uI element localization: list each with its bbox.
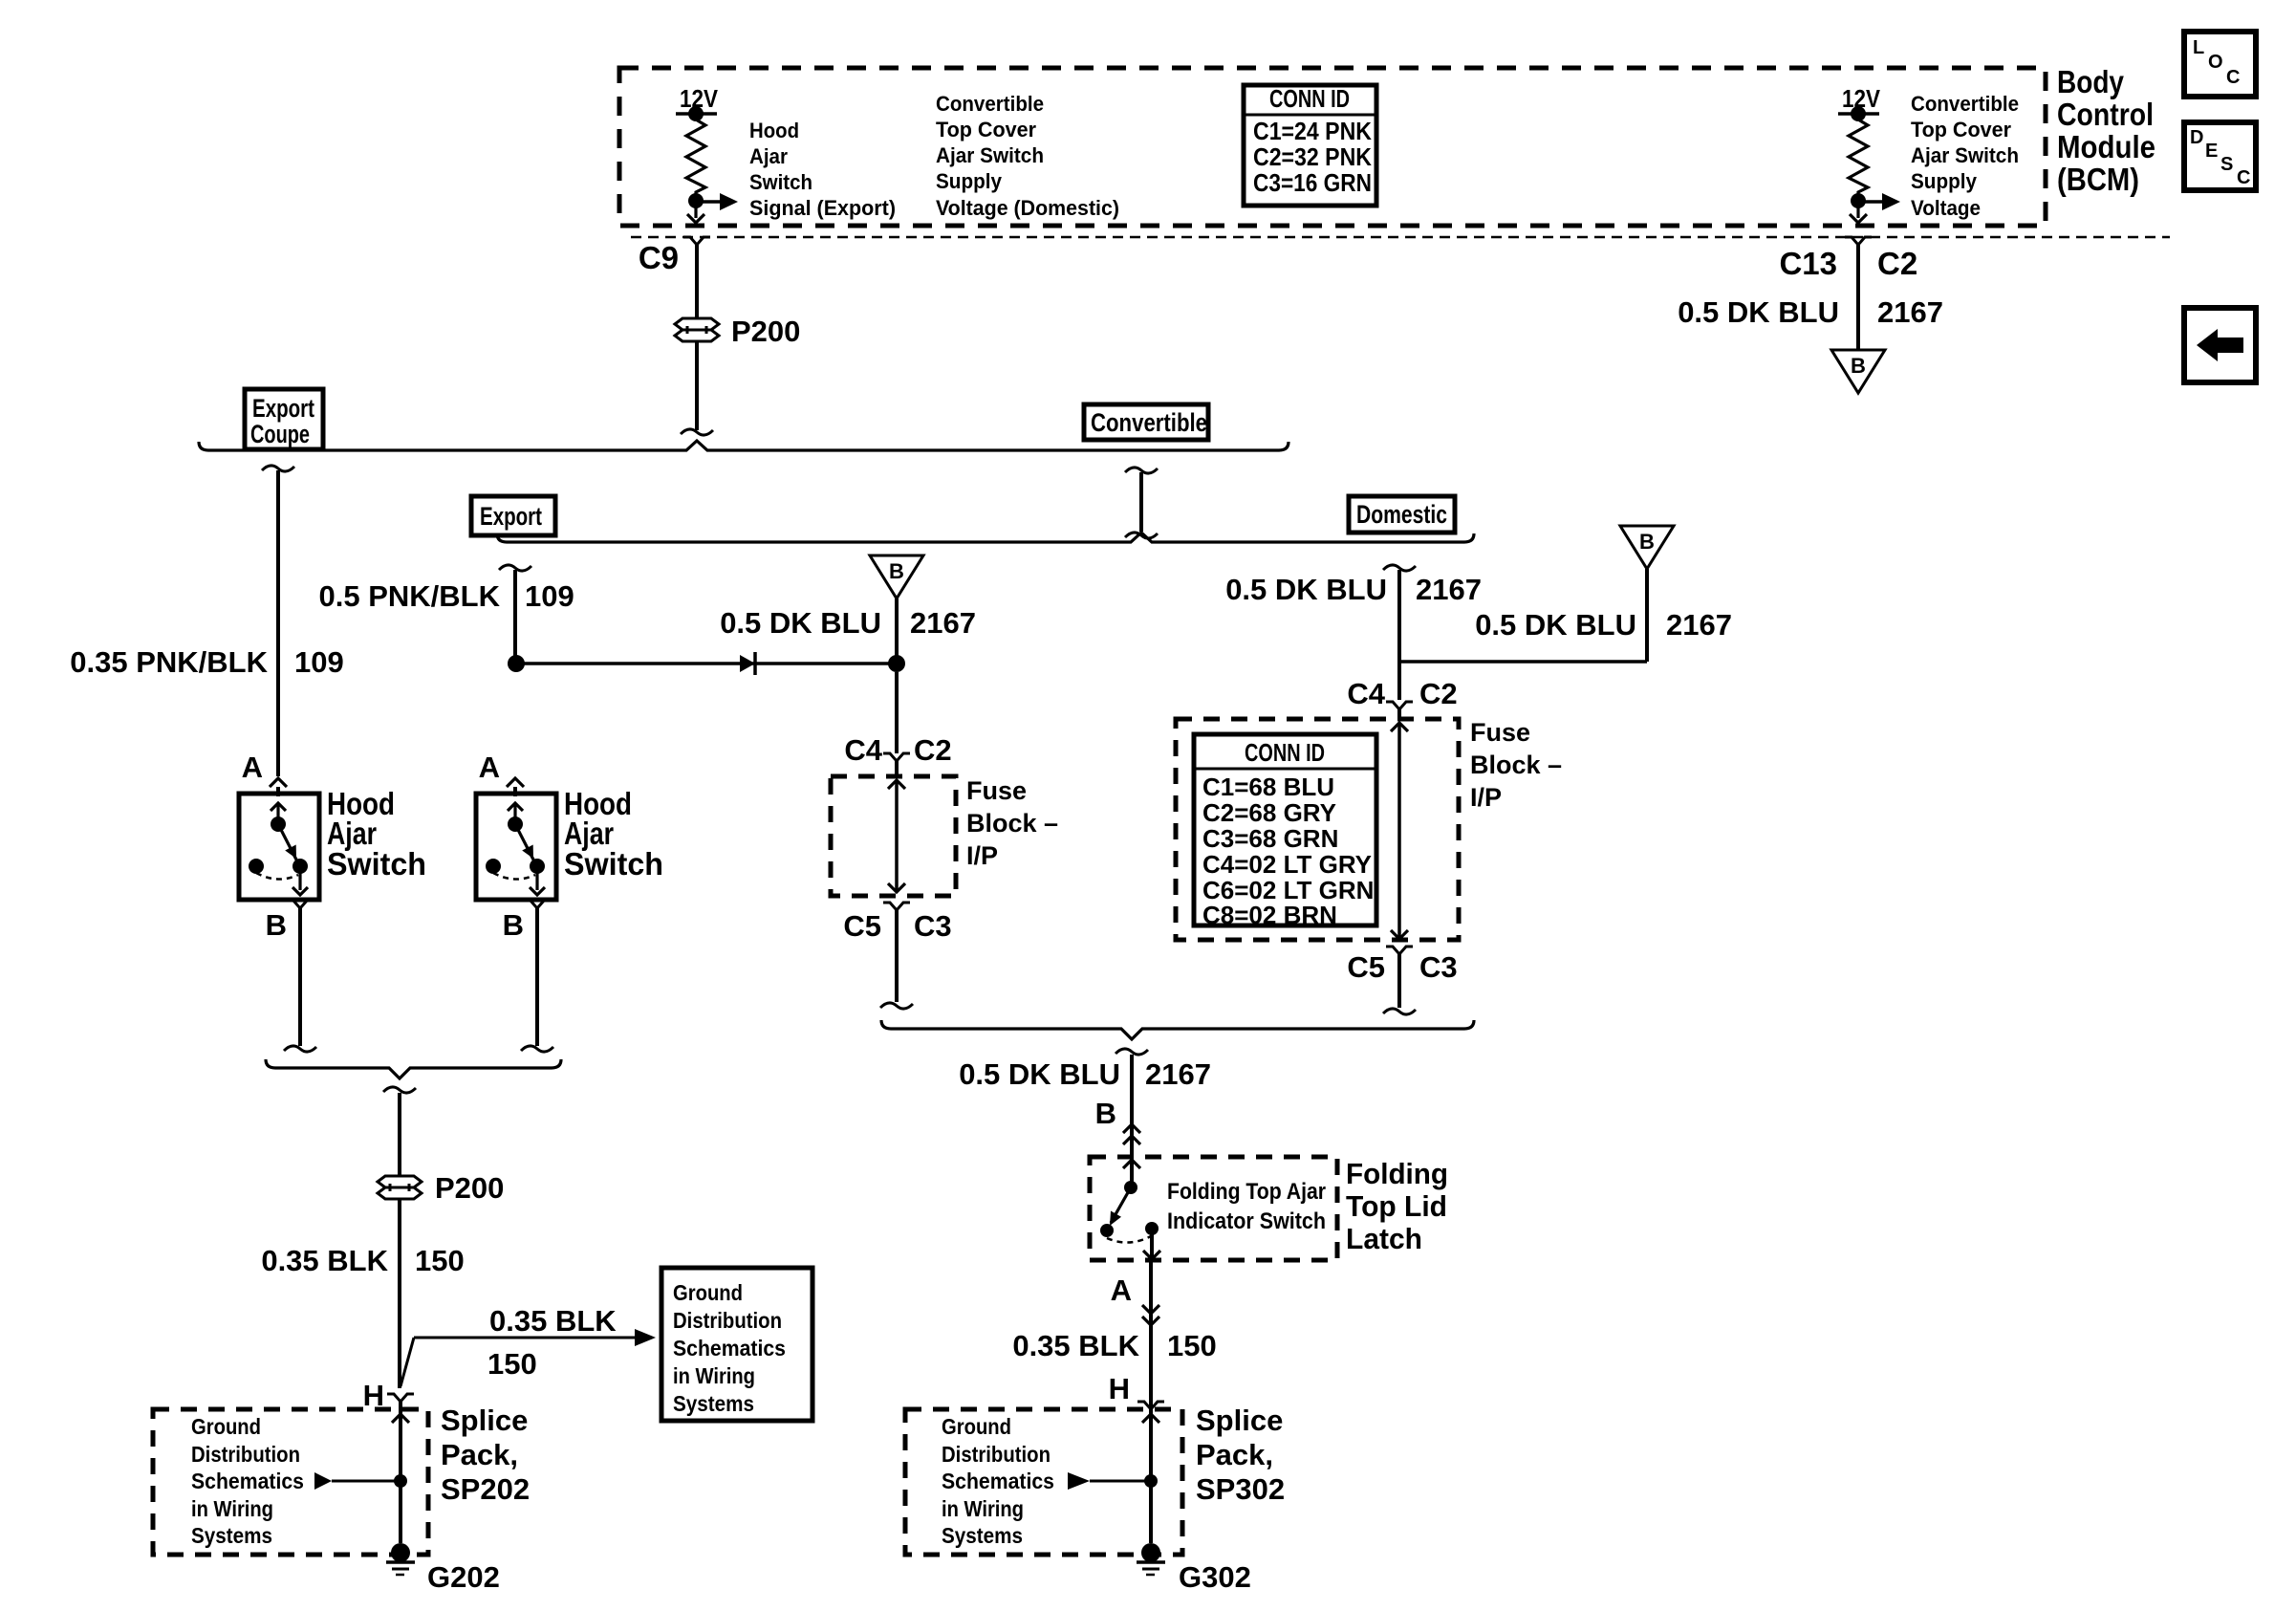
svg-text:C4: C4 [844, 733, 882, 767]
svg-text:Ajar Switch: Ajar Switch [1911, 143, 2019, 167]
svg-text:C5: C5 [843, 909, 881, 943]
svg-text:Block –: Block – [1470, 751, 1562, 779]
svg-text:0.5 PNK/BLK: 0.5 PNK/BLK [319, 579, 501, 613]
svg-text:Convertible: Convertible [936, 92, 1044, 116]
svg-text:Schematics: Schematics [942, 1469, 1054, 1493]
svg-text:Hood: Hood [749, 119, 799, 142]
svg-text:C: C [2226, 67, 2240, 88]
svg-text:Ajar: Ajar [749, 144, 788, 168]
svg-text:Ground: Ground [191, 1414, 261, 1439]
svg-text:Top Cover: Top Cover [1911, 118, 2011, 142]
svg-text:C9: C9 [639, 240, 679, 275]
svg-text:150: 150 [1167, 1329, 1217, 1362]
svg-text:H: H [1109, 1372, 1130, 1405]
svg-text:Folding: Folding [1346, 1157, 1448, 1190]
svg-text:Switch: Switch [749, 170, 812, 194]
svg-text:0.35 PNK/BLK: 0.35 PNK/BLK [70, 645, 268, 679]
svg-text:in Wiring: in Wiring [191, 1496, 273, 1521]
svg-text:C13: C13 [1779, 246, 1837, 281]
svg-text:C: C [2237, 167, 2250, 188]
svg-text:2167: 2167 [1145, 1057, 1211, 1091]
svg-text:C1=24 PNK: C1=24 PNK [1253, 117, 1372, 145]
svg-text:C3: C3 [914, 909, 952, 943]
svg-text:A: A [1111, 1274, 1132, 1307]
svg-text:CONN ID: CONN ID [1269, 84, 1350, 113]
svg-text:Block –: Block – [966, 809, 1058, 838]
svg-text:Export: Export [480, 502, 542, 531]
svg-text:0.5 DK BLU: 0.5 DK BLU [720, 606, 881, 640]
svg-text:Distribution: Distribution [942, 1442, 1051, 1467]
svg-text:Systems: Systems [191, 1523, 272, 1548]
svg-text:109: 109 [294, 645, 344, 679]
svg-text:Module: Module [2057, 129, 2155, 164]
svg-text:Pack,: Pack, [441, 1438, 518, 1471]
svg-text:C8=02 BRN: C8=02 BRN [1202, 901, 1337, 929]
svg-text:Systems: Systems [673, 1391, 754, 1416]
svg-text:0.35 BLK: 0.35 BLK [489, 1304, 617, 1338]
svg-text:Systems: Systems [942, 1523, 1023, 1548]
svg-text:Domestic: Domestic [1356, 500, 1447, 529]
svg-text:C5: C5 [1347, 950, 1385, 984]
svg-text:150: 150 [415, 1244, 465, 1277]
svg-text:in Wiring: in Wiring [673, 1363, 755, 1388]
svg-text:0.5 DK BLU: 0.5 DK BLU [1475, 608, 1636, 642]
svg-text:C2=32 PNK: C2=32 PNK [1253, 142, 1372, 171]
svg-text:2167: 2167 [1877, 295, 1943, 329]
svg-text:C4: C4 [1347, 677, 1385, 710]
svg-text:109: 109 [525, 579, 574, 613]
svg-text:G302: G302 [1179, 1560, 1251, 1594]
svg-text:(BCM): (BCM) [2057, 162, 2139, 197]
svg-text:0.35 BLK: 0.35 BLK [1012, 1329, 1139, 1362]
svg-text:B: B [1095, 1097, 1116, 1130]
svg-text:0.35 BLK: 0.35 BLK [261, 1244, 388, 1277]
svg-text:B: B [1851, 354, 1866, 378]
svg-text:B: B [266, 908, 287, 942]
svg-text:150: 150 [487, 1347, 537, 1381]
svg-text:Ajar Switch: Ajar Switch [936, 143, 1044, 167]
svg-text:SP202: SP202 [441, 1472, 530, 1506]
svg-text:Splice: Splice [441, 1404, 528, 1437]
svg-text:Distribution: Distribution [191, 1442, 300, 1467]
svg-text:Body: Body [2057, 64, 2125, 99]
svg-text:Coupe: Coupe [250, 420, 310, 448]
svg-text:Latch: Latch [1346, 1222, 1422, 1255]
svg-text:2167: 2167 [1416, 573, 1482, 606]
svg-text:Schematics: Schematics [673, 1336, 786, 1361]
svg-text:Folding Top Ajar: Folding Top Ajar [1167, 1179, 1326, 1205]
svg-text:Schematics: Schematics [191, 1469, 304, 1493]
svg-text:D: D [2190, 127, 2203, 148]
svg-text:E: E [2205, 141, 2218, 162]
svg-text:C3=16 GRN: C3=16 GRN [1253, 168, 1372, 197]
svg-text:B: B [889, 559, 904, 583]
svg-text:I/P: I/P [1470, 783, 1502, 812]
svg-text:in Wiring: in Wiring [942, 1496, 1024, 1521]
svg-text:SP302: SP302 [1196, 1472, 1285, 1506]
svg-text:C3=68 GRN: C3=68 GRN [1202, 824, 1338, 853]
svg-text:C3: C3 [1419, 950, 1458, 984]
svg-text:Convertible: Convertible [1091, 408, 1207, 437]
svg-text:Distribution: Distribution [673, 1308, 782, 1333]
svg-text:Voltage: Voltage [1911, 196, 1981, 220]
svg-text:P200: P200 [731, 315, 800, 348]
svg-text:Voltage (Domestic): Voltage (Domestic) [936, 196, 1119, 220]
svg-text:Indicator Switch: Indicator Switch [1167, 1208, 1326, 1234]
svg-text:Fuse: Fuse [966, 776, 1027, 805]
svg-text:Pack,: Pack, [1196, 1438, 1273, 1471]
svg-text:A: A [479, 751, 500, 784]
svg-text:2167: 2167 [910, 606, 976, 640]
svg-text:Convertible: Convertible [1911, 92, 2019, 116]
svg-text:C1=68 BLU: C1=68 BLU [1202, 773, 1334, 801]
svg-text:CONN ID: CONN ID [1245, 738, 1325, 767]
svg-text:Signal (Export): Signal (Export) [749, 196, 896, 220]
svg-text:P200: P200 [435, 1171, 504, 1205]
svg-text:O: O [2208, 52, 2223, 73]
svg-text:Supply: Supply [1911, 169, 1978, 193]
svg-text:Ground: Ground [673, 1280, 743, 1305]
svg-text:C2: C2 [1419, 677, 1458, 710]
svg-text:Fuse: Fuse [1470, 718, 1530, 747]
svg-text:G202: G202 [427, 1560, 500, 1594]
svg-text:C2: C2 [1877, 246, 1917, 281]
svg-text:B: B [1639, 530, 1655, 554]
svg-text:A: A [242, 751, 263, 784]
svg-text:Export: Export [252, 394, 314, 423]
svg-text:2167: 2167 [1666, 608, 1732, 642]
svg-text:I/P: I/P [966, 841, 998, 870]
svg-text:B: B [503, 908, 524, 942]
svg-text:Switch: Switch [564, 846, 663, 882]
svg-text:Ground: Ground [942, 1414, 1011, 1439]
svg-text:C2=68 GRY: C2=68 GRY [1202, 798, 1336, 827]
svg-text:0.5 DK BLU: 0.5 DK BLU [1225, 573, 1387, 606]
svg-text:Top Cover: Top Cover [936, 118, 1036, 142]
svg-text:L: L [2193, 37, 2204, 58]
svg-text:C2: C2 [914, 733, 952, 767]
svg-text:C4=02 LT GRY: C4=02 LT GRY [1202, 850, 1372, 879]
svg-text:Splice: Splice [1196, 1404, 1283, 1437]
svg-text:Supply: Supply [936, 169, 1003, 193]
svg-text:S: S [2220, 154, 2233, 175]
svg-text:Control: Control [2057, 97, 2154, 132]
svg-text:0.5 DK BLU: 0.5 DK BLU [959, 1057, 1120, 1091]
svg-text:Switch: Switch [327, 846, 426, 882]
svg-text:Top Lid: Top Lid [1346, 1189, 1447, 1223]
svg-text:0.5 DK BLU: 0.5 DK BLU [1678, 295, 1839, 329]
